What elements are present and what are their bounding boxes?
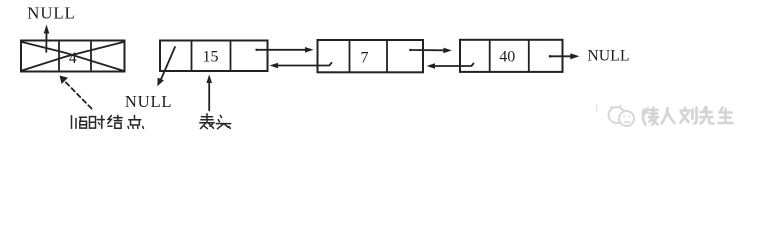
- svg-text:NULL: NULL: [27, 3, 75, 22]
- value 7: [361, 50, 369, 67]
- glyph 头: [220, 115, 221, 117]
- label NULL (right): [588, 48, 630, 65]
- 先: [700, 107, 714, 124]
- svg-text:4: 4: [69, 50, 77, 67]
- node 7 divider 2: [386, 40, 388, 72]
- head node divider 1: [191, 41, 193, 72]
- arrow from head node prev field to NULL below: [157, 47, 175, 86]
- glyph 临: [71, 116, 73, 129]
- 猿: [643, 108, 658, 125]
- label 表头 (head): [200, 114, 231, 129]
- svg-text:40: 40: [499, 48, 515, 65]
- value 40: [499, 48, 515, 65]
- next pointer arrow: node 7 to node 40: [409, 48, 452, 54]
- label NULL (below head node): [125, 92, 172, 111]
- 刘: [681, 108, 697, 124]
- svg-text:NULL: NULL: [588, 48, 630, 65]
- temp node cell divider 2: [90, 41, 92, 72]
- prev pointer arrow: node 7 to head: [270, 63, 332, 69]
- value 4 in temp node: [69, 50, 77, 67]
- head node (15) box: [160, 41, 268, 72]
- svg-text:NULL: NULL: [125, 92, 172, 111]
- svg-text:7: 7: [361, 50, 369, 67]
- node 7 divider 1: [349, 40, 351, 72]
- faint scan tick near watermark: [596, 105, 598, 111]
- dashed arrow from label to temp node: [60, 76, 92, 109]
- label NULL (top-left): [27, 3, 75, 22]
- temp node cell divider 1: [58, 41, 60, 72]
- watermark text 猿人刘先生: [643, 107, 733, 125]
- node (7) box: [318, 40, 424, 72]
- 生: [719, 108, 733, 124]
- temp node box: [21, 41, 125, 72]
- glyph 表: [206, 114, 208, 123]
- next pointer arrow: node 40 to NULL: [549, 53, 580, 59]
- arrow from 表头 label to head node: [206, 75, 212, 111]
- node 40 divider 1: [489, 40, 491, 72]
- head node divider 2: [230, 41, 232, 72]
- glyph 结: [108, 116, 112, 124]
- node 40 divider 2: [528, 40, 530, 72]
- glyph 时: [90, 117, 96, 129]
- cross stroke BL to TR over temp node: [22, 42, 124, 71]
- svg-text:15: 15: [203, 49, 219, 66]
- 人: [662, 108, 675, 124]
- node (40) box: [460, 40, 563, 72]
- value 15: [203, 49, 219, 66]
- label 临时结点 (temporary node): [72, 115, 144, 128]
- cross stroke TL to BR over temp node: [22, 42, 124, 71]
- glyph 点: [134, 115, 136, 119]
- prev pointer arrow: node 40 to node 7: [427, 63, 474, 69]
- watermark icon (two bubbles face): [609, 106, 635, 127]
- next pointer arrow: head to node 7: [255, 47, 313, 53]
- arrow from temp node prev field to NULL: [44, 25, 50, 53]
